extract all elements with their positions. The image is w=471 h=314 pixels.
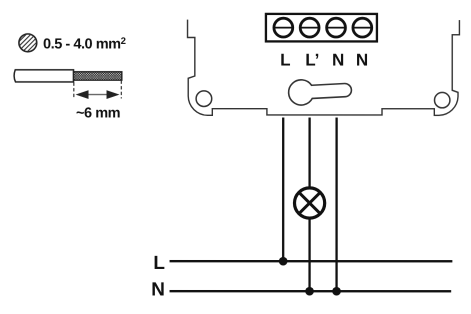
- svg-text:N: N: [332, 50, 344, 69]
- N supply line: [170, 290, 452, 292]
- junction dot N: [332, 287, 341, 296]
- wire from N terminal: [335, 118, 337, 292]
- stripped conductor (hatched): [74, 72, 122, 80]
- wire from lamp to N line: [308, 220, 310, 292]
- device outline (flush-mount insert profile): [188, 20, 460, 116]
- svg-text:L’: L’: [305, 50, 319, 69]
- keyhole slot: [289, 80, 352, 105]
- right fixing screw hole: [435, 92, 450, 107]
- svg-text:0.5 - 4.0 mm2: 0.5 - 4.0 mm2: [43, 36, 126, 53]
- cable insulation: [14, 70, 73, 82]
- dashed extension line right: [120, 80, 122, 98]
- svg-text:L: L: [153, 253, 165, 274]
- wire from L terminal: [282, 118, 284, 262]
- junction dot lamp-N: [305, 287, 314, 296]
- terminal screw N2: [353, 18, 372, 37]
- dimension double arrow ~6mm: [76, 90, 120, 99]
- terminal block: [266, 14, 377, 42]
- terminal screw N: [327, 18, 346, 37]
- terminal screw L: [274, 18, 293, 37]
- lamp: [294, 188, 324, 218]
- junction dot L: [279, 257, 288, 266]
- wire from L' terminal to lamp: [308, 118, 310, 187]
- left fixing screw hole: [196, 91, 212, 107]
- svg-text:L: L: [280, 50, 290, 69]
- svg-text:N: N: [151, 280, 165, 301]
- terminal screw L': [300, 18, 319, 37]
- svg-text:~6 mm: ~6 mm: [76, 106, 120, 122]
- wire cross-section icon (hatched circle): [1, 16, 47, 62]
- dashed extension line left: [73, 82, 75, 98]
- L supply line: [170, 260, 453, 262]
- svg-text:N: N: [356, 50, 368, 69]
